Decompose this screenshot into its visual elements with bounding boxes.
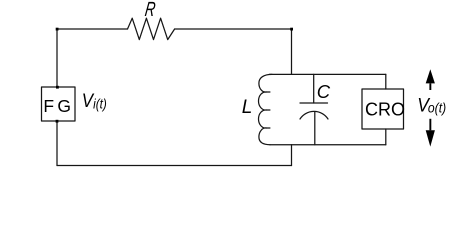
junction FG bottom pin — [56, 120, 59, 123]
wire left vertical lower — [56, 121, 58, 166]
svg-text:L: L — [242, 97, 253, 118]
capacitor C1 top lead — [313, 74, 315, 103]
inductor cusp tick 1 — [266, 91, 270, 93]
junction top-left corner — [56, 28, 59, 31]
wire top-right horizontal — [175, 28, 292, 30]
svg-text:CRO: CRO — [365, 100, 405, 120]
label R — [144, 0, 158, 21]
svg-text:C: C — [317, 81, 331, 102]
wire CRO top lead — [385, 74, 387, 89]
wire tank bottom bar — [270, 144, 386, 146]
wire CRO bottom lead — [385, 129, 387, 145]
capacitor C1 curved plate — [300, 111, 328, 119]
wire right vertical lower — [291, 145, 293, 166]
label v0(t) — [417, 94, 446, 116]
wire right vertical upper — [291, 29, 293, 74]
inductor cusp tick 2 — [266, 109, 270, 111]
junction top-right corner — [290, 28, 293, 31]
svg-text:F G: F G — [43, 96, 70, 116]
capacitor C1 flat plate — [300, 102, 328, 104]
wire tank top bar — [270, 73, 386, 75]
resistor R1 zigzag — [128, 18, 175, 39]
wire bottom horizontal — [57, 165, 292, 167]
oscilloscope CRO box — [362, 89, 404, 129]
function generator FG box — [42, 87, 76, 121]
inductor L1 coil — [258, 74, 272, 144]
wire top-left horizontal — [57, 28, 128, 30]
inductor cusp tick 3 — [266, 127, 270, 129]
arrow down (v0 polarity) — [426, 119, 435, 147]
label Vi(t) — [82, 89, 107, 112]
capacitor C1 bottom lead — [314, 112, 316, 145]
arrow up (v0 polarity) — [426, 69, 435, 90]
wire left vertical upper — [56, 29, 58, 87]
junction FG top pin — [56, 86, 59, 89]
